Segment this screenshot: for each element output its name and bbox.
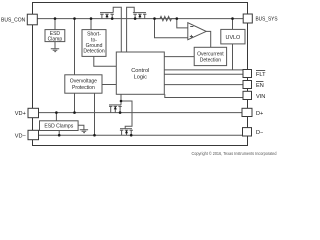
node ESD clamps VD+ bbox=[55, 111, 58, 114]
svg-text:BUS_CON: BUS_CON bbox=[1, 17, 25, 23]
node gate branch bbox=[120, 100, 123, 103]
node OVP VD- bbox=[93, 134, 96, 137]
svg-text:Clamp: Clamp bbox=[48, 36, 63, 42]
pin FLT bbox=[243, 70, 252, 78]
node resistor right bbox=[176, 17, 179, 20]
svg-text:FLT: FLT bbox=[256, 72, 266, 78]
block Overvoltage Protection bbox=[65, 75, 102, 93]
transistor Q1 body arrow bbox=[106, 14, 109, 17]
node OVP bbox=[73, 17, 76, 20]
svg-text:Detection: Detection bbox=[200, 58, 222, 64]
overline FLT bbox=[256, 71, 265, 82]
svg-text:UVLO: UVLO bbox=[226, 35, 241, 41]
wire OVP to control bbox=[102, 84, 116, 86]
svg-text:Detection: Detection bbox=[83, 49, 105, 55]
wire S2G to control bbox=[94, 56, 117, 66]
wire ESD clamps to ground bbox=[78, 125, 84, 129]
pin VD+ bbox=[28, 108, 39, 117]
wire control to FLT bbox=[164, 73, 243, 75]
block Overcurrent Detection bbox=[194, 47, 226, 65]
svg-text:Overcurrent: Overcurrent bbox=[197, 51, 224, 57]
wire BUS main bbox=[38, 18, 244, 20]
transistor Q4 body arrow bbox=[125, 130, 128, 133]
op-amp minus sign bbox=[190, 26, 193, 28]
chip boundary bbox=[33, 3, 248, 146]
pin BUS_CON bbox=[27, 14, 37, 25]
wire sense plus bbox=[155, 19, 188, 38]
transistor Q1 plate bbox=[100, 12, 113, 14]
node OVP VD+ bbox=[73, 111, 76, 114]
wire OVP to VD+ bbox=[74, 93, 76, 112]
transistor Q4 taps bbox=[120, 130, 133, 135]
wire control to EN bbox=[164, 84, 243, 86]
node Q3 tap bbox=[119, 111, 122, 114]
pin VIN bbox=[243, 91, 252, 99]
wire OVP to VD- bbox=[94, 93, 96, 135]
block UVLO bbox=[221, 29, 245, 44]
ground G1 bbox=[51, 49, 59, 52]
node Q4 tap bbox=[130, 134, 133, 137]
node UVLO bbox=[231, 17, 234, 20]
node S2G bbox=[90, 17, 93, 20]
svg-text:ESD Clamps: ESD Clamps bbox=[44, 124, 73, 130]
pin D- bbox=[243, 128, 252, 136]
wire ESD clamp ground stem bbox=[54, 42, 56, 49]
wire control to OC bbox=[164, 56, 194, 58]
svg-text:VIN: VIN bbox=[256, 94, 265, 100]
transistor Q2 body arrow bbox=[138, 14, 141, 17]
transistor Q2 taps bbox=[133, 14, 146, 18]
svg-text:Protection: Protection bbox=[72, 85, 95, 91]
pin VD- bbox=[28, 130, 39, 139]
pin boxes bbox=[27, 14, 252, 140]
wire control to Q3 gate bbox=[120, 94, 122, 105]
svg-text:Copyright © 2016, Texas Instru: Copyright © 2016, Texas Instruments Inco… bbox=[192, 151, 278, 156]
transistor Q3 plate bbox=[109, 104, 121, 106]
pin EN bbox=[243, 81, 252, 89]
wire op-amp output bbox=[206, 31, 211, 47]
transistor Q2 plate bbox=[133, 12, 146, 14]
node Q1 source bbox=[111, 17, 114, 20]
svg-text:BUS_SYS: BUS_SYS bbox=[256, 17, 278, 23]
wire VD+ to D+ bbox=[39, 112, 243, 114]
svg-text:Overvoltage: Overvoltage bbox=[70, 79, 97, 85]
transistor Q3 taps bbox=[109, 106, 122, 112]
pin BUS_SYS bbox=[243, 14, 252, 23]
block Short-to-Ground Detection bbox=[82, 30, 106, 57]
function blocks bbox=[40, 29, 246, 130]
pin D+ bbox=[242, 108, 252, 116]
svg-text:Logic: Logic bbox=[134, 74, 148, 80]
ground G2 bbox=[80, 130, 88, 133]
wire ESD clamps to VD+ bbox=[55, 113, 57, 121]
svg-text:D−: D− bbox=[256, 130, 263, 136]
svg-text:VD+: VD+ bbox=[15, 111, 26, 117]
wire UVLO bottom drop bbox=[232, 44, 234, 70]
node ESD clamp bbox=[54, 17, 57, 20]
wire sense minus bbox=[177, 19, 188, 28]
node resistor left bbox=[153, 17, 156, 20]
wire VD- to D- bbox=[39, 134, 243, 136]
transistor Q1 gate flag bbox=[113, 7, 121, 52]
node Q2 source bbox=[134, 17, 137, 20]
wire gate branch to Q4 bbox=[121, 101, 132, 129]
wire OVP top drop bbox=[74, 19, 76, 75]
transistor Q1 taps bbox=[100, 14, 114, 18]
svg-text:D+: D+ bbox=[256, 111, 263, 117]
op-amp plus sign bbox=[190, 35, 193, 38]
block ESD Clamp bbox=[45, 30, 65, 42]
wire ESD clamp drop bbox=[54, 19, 56, 30]
transistor Q4 plate bbox=[120, 128, 132, 130]
transistor Q3 body arrow bbox=[114, 106, 117, 109]
wire VIN bbox=[165, 94, 243, 97]
transistor Q2 gate flag bbox=[127, 7, 135, 52]
resistor R sense bbox=[155, 16, 177, 20]
wire sense rail to FLT bbox=[164, 69, 243, 71]
svg-text:Control: Control bbox=[131, 68, 149, 74]
block ESD Clamps bbox=[40, 121, 79, 131]
svg-text:VD−: VD− bbox=[15, 133, 26, 139]
svg-text:EN: EN bbox=[256, 83, 264, 89]
wire ESD clamps to VD- bbox=[58, 131, 60, 136]
wire S2G drop bbox=[90, 19, 92, 30]
node ESD clamps VD- bbox=[58, 134, 61, 137]
wire UVLO top drop bbox=[232, 19, 234, 30]
block Control Logic bbox=[116, 52, 164, 94]
op-amp U1 bbox=[188, 23, 206, 40]
